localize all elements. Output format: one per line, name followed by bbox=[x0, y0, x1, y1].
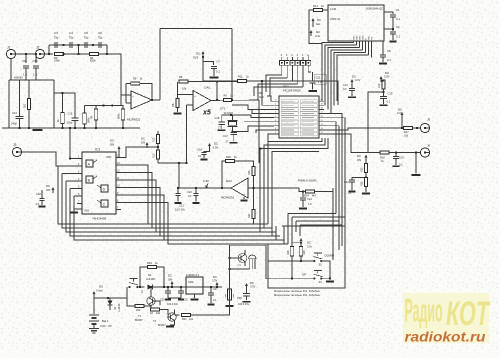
wire R10 down bbox=[122, 120, 124, 128]
wire R24 right bbox=[315, 188, 334, 192]
resistor R10 bbox=[121, 109, 124, 120]
svg-text:12FM 44: 12FM 44 bbox=[330, 18, 340, 21]
wire R2 bottom bbox=[28, 110, 30, 129]
ground T3 bbox=[166, 326, 174, 328]
capacitor C22 bbox=[193, 193, 198, 195]
capacitor C24 bbox=[300, 198, 306, 200]
wire minus input rail bbox=[120, 95, 122, 106]
wire battery rail bbox=[93, 296, 95, 314]
wire arrow bat bbox=[312, 24, 314, 27]
capacitor C20 left bbox=[39, 198, 44, 200]
IC1 pin 9 bbox=[116, 194, 121, 196]
wire C13 down bbox=[383, 99, 385, 104]
svg-text:1.0: 1.0 bbox=[318, 80, 322, 84]
svg-text:J2: J2 bbox=[36, 46, 40, 50]
wire IC1 p14 up bbox=[121, 147, 147, 158]
wire PIC r1 stub bbox=[319, 100, 324, 102]
wire C23 down bbox=[351, 182, 353, 190]
wire C11 down bbox=[312, 83, 314, 89]
wire C19 drop bbox=[395, 153, 397, 157]
svg-text:820k: 820k bbox=[90, 59, 96, 63]
svg-text:R19: R19 bbox=[147, 261, 152, 265]
capacitor C3 bbox=[55, 42, 57, 48]
ground C2 bbox=[390, 41, 397, 43]
wire xtal bottom lead bbox=[232, 126, 234, 131]
wire C15 bottom bbox=[74, 121, 76, 128]
svg-text:C5: C5 bbox=[84, 31, 88, 35]
wire C8 gnd bbox=[382, 57, 384, 62]
wire C27 drop bbox=[210, 287, 212, 293]
wire IC1 p13 right bbox=[121, 165, 148, 224]
wire PIC p8 bbox=[256, 130, 274, 133]
wire C11 drop bbox=[312, 72, 314, 81]
wire bus left v4 bbox=[70, 188, 77, 190]
svg-text:MCP6S91: MCP6S91 bbox=[221, 196, 235, 200]
wire R24 left bbox=[299, 188, 306, 192]
capacitor C7 bbox=[211, 66, 217, 68]
svg-text:3.6V - 6V: 3.6V - 6V bbox=[100, 324, 112, 328]
wire nested h c bbox=[296, 221, 339, 250]
capacitor C10 bbox=[33, 66, 39, 68]
resistor R2 bbox=[27, 99, 30, 110]
wire DA2 fb left bbox=[222, 161, 226, 188]
svg-text:C3: C3 bbox=[54, 31, 58, 35]
svg-text:RS: RS bbox=[372, 36, 374, 40]
ground R8 bbox=[174, 113, 182, 115]
svg-text:10k: 10k bbox=[182, 87, 187, 91]
ground J6 bbox=[412, 174, 421, 176]
wire chain left drop bbox=[48, 45, 50, 54]
resistor R13 bbox=[156, 150, 159, 159]
svg-text:UP: UP bbox=[302, 273, 306, 277]
wire PIC r2 stub bbox=[319, 104, 324, 106]
wire J2 to filter bbox=[45, 53, 53, 55]
wire bus bottom c bbox=[156, 231, 260, 233]
wire T3 collector bbox=[174, 310, 176, 314]
wire C26 drop bbox=[167, 287, 169, 291]
wire C17 gnd bbox=[233, 135, 235, 142]
wire R19 left bbox=[140, 267, 148, 287]
svg-text:DC: DC bbox=[213, 275, 217, 279]
capacitor C26 bbox=[165, 291, 171, 293]
IC VR1 regulator box bbox=[186, 277, 203, 294]
IC DD2 PIC18F14K50 box bbox=[279, 96, 319, 138]
power arrow DC ON divider bbox=[146, 143, 149, 148]
wire bus left v4b bbox=[70, 189, 280, 237]
power arrow keys bbox=[300, 239, 303, 243]
svg-text:ON: ON bbox=[141, 141, 145, 145]
capacitor C21 bbox=[175, 193, 180, 195]
ground keys bbox=[326, 281, 334, 283]
wire feedback to output bbox=[140, 84, 152, 100]
wire R17 to J5 bbox=[413, 127, 421, 129]
svg-text:C21: C21 bbox=[179, 204, 184, 208]
transistor T1 bbox=[147, 297, 155, 305]
resistor R28 bbox=[290, 247, 293, 256]
capacitor C6 bbox=[99, 42, 101, 48]
svg-text:C26: C26 bbox=[160, 299, 165, 302]
wire C22 drop bbox=[195, 188, 197, 193]
capacitor C18 bbox=[201, 152, 206, 154]
wire T3 base right bbox=[175, 314, 180, 316]
wire LCD right c1 bbox=[384, 12, 393, 14]
ground C29 bbox=[243, 301, 251, 303]
svg-text:R12: R12 bbox=[153, 137, 156, 142]
resistor R4 bbox=[90, 52, 99, 55]
svg-text:DA1: DA1 bbox=[205, 86, 211, 90]
wire C22 down bbox=[195, 196, 197, 202]
capacitor C2 bbox=[390, 32, 396, 34]
svg-text:C19: C19 bbox=[399, 157, 404, 160]
wire x5 fb right bbox=[188, 81, 238, 83]
svg-text:75p: 75p bbox=[69, 36, 74, 40]
svg-text:S2: S2 bbox=[319, 263, 323, 267]
wire S3 line bbox=[268, 278, 314, 280]
wire R22 drop bbox=[365, 161, 367, 164]
svg-text:LL4148: LL4148 bbox=[118, 303, 121, 312]
switch S3 bbox=[313, 271, 322, 280]
wire DA2 gnd stub bbox=[243, 197, 245, 199]
op-amp DA1.1 bbox=[131, 91, 152, 109]
resistor R21 bbox=[182, 313, 191, 316]
diode D4 bbox=[147, 284, 152, 289]
capacitor C23 bbox=[349, 180, 355, 182]
wire bus left v1b bbox=[58, 166, 268, 224]
svg-text:R25: R25 bbox=[248, 170, 251, 175]
wire R16 left bbox=[127, 298, 135, 306]
svg-text:100.0 10v: 100.0 10v bbox=[238, 303, 250, 306]
svg-text:1.0: 1.0 bbox=[23, 73, 27, 77]
wire R14 left bbox=[309, 10, 322, 44]
wire R15 tap bbox=[368, 92, 384, 153]
wire PIC r7 bbox=[324, 125, 339, 127]
power arrow DC ON C20 bbox=[52, 188, 55, 193]
wire J1 to J2 bbox=[16, 53, 36, 55]
IC1 pin 11 bbox=[116, 179, 121, 181]
svg-text:3.3V: 3.3V bbox=[212, 279, 218, 283]
wire C7 down bbox=[213, 69, 215, 76]
wire PIC p6 bbox=[244, 121, 274, 123]
svg-text:R5: R5 bbox=[133, 77, 137, 81]
wire R18 right bbox=[389, 152, 420, 154]
power arrow 3.3V J5 bbox=[401, 113, 404, 118]
wire nested left a bbox=[287, 214, 289, 245]
wire PIC p3 left bbox=[232, 105, 274, 109]
connector J3 bbox=[12, 147, 21, 156]
svg-text:C28: C28 bbox=[237, 297, 242, 300]
wire R16 right bbox=[144, 305, 151, 307]
PIC internal left column bbox=[281, 100, 298, 103]
power arrow 3.3V C12 bbox=[351, 80, 354, 85]
X1 pin 3 lead bbox=[297, 57, 299, 61]
wire PIC r9 bbox=[324, 134, 368, 153]
svg-text:R15: R15 bbox=[378, 83, 381, 88]
wire x5 top input from feedback bbox=[178, 82, 194, 95]
wire output bbox=[152, 99, 160, 101]
wire fb drop to output bbox=[216, 82, 218, 101]
svg-text:75p: 75p bbox=[84, 36, 89, 40]
transistor T3 bbox=[168, 313, 176, 321]
svg-text:0.1: 0.1 bbox=[216, 70, 220, 74]
wire VR1 gnd bbox=[194, 294, 196, 298]
wire R28 down bbox=[291, 256, 293, 279]
svg-text:VR1: VR1 bbox=[188, 280, 194, 284]
wire bus left v5b bbox=[74, 196, 284, 240]
wire bus left v3b bbox=[66, 181, 276, 232]
ground C25 bbox=[178, 299, 184, 301]
svg-text:DC: DC bbox=[307, 241, 311, 245]
wire 3V3 rail bbox=[202, 57, 204, 81]
wire ground loop bbox=[54, 93, 75, 128]
IC1 pin 1 bbox=[77, 158, 82, 160]
battery Bat1 bbox=[89, 315, 99, 324]
wire y81 rail right bbox=[247, 81, 339, 105]
ground C7 bbox=[210, 77, 219, 79]
wire gnd rail caps bbox=[168, 297, 181, 299]
svg-text:100.0 16v: 100.0 16v bbox=[167, 303, 179, 306]
svg-text:C12: C12 bbox=[343, 83, 348, 87]
svg-text:-: - bbox=[244, 183, 245, 186]
svg-text:75p: 75p bbox=[98, 36, 103, 40]
wire C8 drop bbox=[382, 41, 384, 55]
svg-text:3.3V: 3.3V bbox=[384, 75, 390, 79]
svg-text:R26: R26 bbox=[226, 155, 231, 159]
wire R13a bottom bbox=[84, 124, 86, 128]
svg-text:C11: C11 bbox=[316, 76, 321, 80]
power arrow 3.3V C28 bbox=[245, 284, 248, 288]
svg-text:DC: DC bbox=[398, 108, 402, 112]
wire mid taps bbox=[78, 45, 80, 54]
power arrow DC 3.3v LCD bbox=[310, 31, 313, 36]
C11 label box bbox=[314, 74, 326, 84]
capacitor C25 bbox=[178, 291, 184, 293]
wire bus left v3 bbox=[66, 180, 77, 182]
resistor R20 bbox=[151, 308, 160, 311]
wire C18 drop bbox=[204, 149, 210, 152]
power arrow DC ON right bbox=[365, 156, 368, 161]
wire S1 to D4 bbox=[139, 286, 145, 288]
svg-text:1.0: 1.0 bbox=[33, 73, 37, 77]
svg-text:C17: C17 bbox=[223, 134, 228, 138]
wire IC1 p11 right bbox=[121, 180, 156, 232]
ground IC1 VSS bbox=[70, 212, 78, 214]
wire feedback node bbox=[125, 84, 127, 104]
wire bus bottom d bbox=[160, 235, 272, 237]
wire VSS pin down bbox=[371, 48, 373, 58]
svg-text:0-3V: 0-3V bbox=[203, 179, 209, 183]
svg-text:0.1: 0.1 bbox=[188, 194, 192, 198]
resistor R19 bbox=[148, 265, 157, 268]
svg-text:74HC4066: 74HC4066 bbox=[92, 217, 107, 221]
connector X1 header bbox=[280, 61, 285, 66]
svg-text:C13: C13 bbox=[388, 92, 393, 96]
svg-text:C15: C15 bbox=[68, 112, 73, 116]
LCD bottom pins bbox=[353, 41, 355, 43]
svg-text:C27: C27 bbox=[213, 288, 218, 291]
wire R20 right bbox=[160, 310, 169, 316]
ground analog bbox=[33, 129, 43, 131]
wire X1 row4 bbox=[258, 84, 298, 100]
wire PIC p4 left bbox=[252, 109, 274, 114]
ground C16 bbox=[218, 129, 226, 131]
wire IC1 p12 right bbox=[121, 173, 152, 229]
wire C21 down bbox=[177, 196, 179, 202]
wire R21 riser up bbox=[230, 245, 269, 283]
wire T2 emitter bbox=[244, 261, 246, 266]
wire R14 to LCD bbox=[323, 9, 329, 11]
wire bundle v2 bbox=[335, 122, 337, 214]
svg-text:C7: C7 bbox=[217, 60, 221, 64]
connector J6 bbox=[420, 148, 429, 157]
ground C28 bbox=[226, 305, 234, 307]
wire nested left c bbox=[295, 221, 297, 232]
wire header p1 up bbox=[307, 55, 309, 61]
wire C26 down bbox=[167, 293, 169, 298]
wire R27 bottom bbox=[253, 219, 255, 225]
ground R23 bbox=[362, 193, 370, 195]
IC1 pin 6 bbox=[77, 195, 82, 197]
node AGND rail bbox=[9, 79, 54, 81]
ground C19 bbox=[393, 165, 400, 167]
IC1 pin 13 bbox=[116, 164, 121, 166]
wire bundle v4 bbox=[341, 213, 343, 225]
resistor R8 bbox=[176, 99, 179, 108]
svg-text:radiokot.ru: radiokot.ru bbox=[405, 328, 486, 344]
wire R19 right bbox=[157, 267, 165, 287]
svg-text:3v3: 3v3 bbox=[259, 95, 264, 99]
wire bus riser right e bbox=[275, 226, 277, 240]
resistor R26 bbox=[226, 159, 235, 162]
svg-text:0.1: 0.1 bbox=[213, 299, 217, 302]
PIC right pins bbox=[319, 100, 324, 102]
svg-text:C18: C18 bbox=[197, 148, 202, 152]
wire c2 drop bbox=[392, 29, 394, 31]
wire D2 down bbox=[109, 305, 111, 310]
wire PIC r5 bbox=[324, 118, 345, 217]
svg-text:AGND: AGND bbox=[14, 76, 24, 80]
svg-text:R14: R14 bbox=[313, 4, 318, 8]
svg-text:Микросхемы тактовые 301, бибеб: Микросхемы тактовые 301, бибебаш bbox=[274, 289, 320, 293]
ground C23 bbox=[349, 191, 356, 193]
wire PIC r8 bbox=[324, 128, 402, 130]
wire D2 top bbox=[109, 298, 111, 301]
svg-text:ON: ON bbox=[110, 143, 114, 147]
wire bat down bbox=[93, 324, 95, 329]
svg-text:R28: R28 bbox=[287, 250, 290, 255]
svg-text:S3: S3 bbox=[319, 280, 323, 284]
svg-text:КОТ: КОТ bbox=[446, 295, 491, 333]
svg-text:DC: DC bbox=[250, 281, 254, 285]
wire T3 emitter bbox=[170, 320, 175, 325]
svg-text:LL4148: LL4148 bbox=[146, 277, 155, 281]
X1 pin 5 lead bbox=[286, 57, 288, 61]
IC1 pin 7 VSS wire bbox=[74, 209, 82, 211]
resistor R11 bbox=[238, 79, 247, 82]
power arrow DC ON IC1 bbox=[118, 147, 121, 152]
wire C14 top bbox=[19, 80, 21, 116]
power arrow 3.3V crystal bbox=[208, 144, 211, 149]
wire nested left d bbox=[299, 225, 301, 236]
switch S1 bbox=[129, 279, 139, 288]
svg-text:J1: J1 bbox=[7, 46, 11, 50]
wire keys supply rail bbox=[292, 242, 301, 244]
connector J1 bbox=[6, 49, 15, 58]
svg-text:C14: C14 bbox=[12, 111, 17, 115]
wire xtal top rail bbox=[222, 115, 274, 118]
IC1 pin 2 bbox=[77, 165, 82, 167]
wire DC ON to VDD bbox=[119, 152, 121, 158]
wire PIC xtal a stub bbox=[271, 117, 274, 119]
wire bus riser right d bbox=[272, 152, 319, 237]
wire C17 drop bbox=[233, 131, 235, 134]
resistor R15 bbox=[382, 80, 385, 89]
svg-text:0.1: 0.1 bbox=[396, 17, 400, 21]
wire C16 gnd bbox=[221, 125, 223, 129]
capacitor C4 bbox=[70, 42, 72, 48]
resistor R7 feedback bbox=[179, 80, 188, 83]
wire pin1 rail bbox=[69, 128, 71, 159]
wire T2 collector bbox=[244, 250, 246, 255]
IC LCD module box bbox=[328, 5, 384, 41]
svg-text:R6: R6 bbox=[224, 94, 228, 98]
wire divider top bbox=[157, 131, 159, 135]
wire C25 down bbox=[180, 293, 182, 298]
wire PIC p2 left bbox=[262, 81, 274, 105]
svg-text:R8: R8 bbox=[171, 103, 175, 107]
wire bus bottom e bbox=[164, 239, 276, 241]
switch cell B bbox=[86, 176, 93, 183]
svg-text:0.1: 0.1 bbox=[348, 192, 352, 195]
capacitor C29 bbox=[243, 294, 250, 296]
svg-text:DA2: DA2 bbox=[226, 179, 232, 183]
svg-text:R13: R13 bbox=[153, 153, 156, 158]
wire x5 bottom input bbox=[187, 104, 194, 106]
svg-text:C9: C9 bbox=[22, 59, 26, 63]
svg-text:J6: J6 bbox=[427, 144, 431, 148]
svg-text:0.1: 0.1 bbox=[198, 154, 202, 158]
wire cap chain bbox=[49, 44, 107, 46]
capacitor C9 bbox=[23, 66, 29, 68]
wire divider feed bbox=[147, 146, 158, 148]
wire R22 down bbox=[365, 173, 367, 178]
wire left rail down bbox=[8, 80, 10, 128]
svg-text:IC1: IC1 bbox=[95, 148, 100, 152]
X1 pin 4 lead bbox=[291, 57, 293, 61]
wire R29 down bbox=[300, 256, 302, 261]
svg-text:ON: ON bbox=[357, 158, 361, 162]
connector J5 bbox=[420, 123, 429, 132]
IC1 pin 7 bbox=[77, 203, 82, 205]
wire C25 drop bbox=[180, 287, 182, 291]
wire C20 gnd bbox=[41, 201, 43, 205]
svg-text:R11: R11 bbox=[238, 75, 243, 79]
wire R15 down bbox=[383, 89, 385, 96]
transistor T2 bbox=[238, 254, 247, 263]
wire bus left v2 bbox=[62, 173, 77, 175]
ground C24 bbox=[299, 208, 307, 210]
wire down to DA2 bbox=[258, 100, 260, 163]
PIC internal right column bbox=[300, 100, 317, 103]
wire R9 R10 top bbox=[95, 106, 97, 110]
wire y163 to DA2 input bbox=[178, 163, 180, 188]
capacitor C8 bbox=[380, 55, 386, 57]
wire R28 top bbox=[291, 243, 293, 247]
resistor R25 bbox=[252, 167, 255, 176]
wire feedback top left bbox=[126, 83, 131, 85]
wire S1 riser bbox=[126, 287, 128, 298]
resistor R14 bbox=[314, 8, 323, 11]
wire R29 top bbox=[300, 243, 302, 247]
